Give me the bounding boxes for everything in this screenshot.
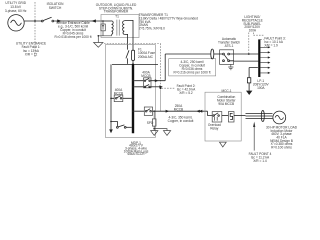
motor cable run bbox=[246, 113, 273, 118]
fault point 2 label bbox=[177, 84, 197, 95]
transformer T1 spec label bbox=[139, 13, 198, 30]
ATS-1 transfer switch bbox=[214, 50, 234, 65]
motor M1 bbox=[273, 111, 286, 124]
ground (SPD) bbox=[151, 131, 158, 136]
wire bus to MCC bbox=[134, 111, 212, 115]
node at boundary bbox=[34, 20, 36, 22]
node bus MCC feeder bbox=[132, 110, 134, 112]
svg-text:X/R = 1.9: X/R = 1.9 bbox=[264, 44, 278, 48]
svg-text:R=0.018 ohms per 1000 ft: R=0.018 ohms per 1000 ft bbox=[55, 35, 92, 39]
svg-text:X/R = 12: X/R = 12 bbox=[25, 52, 38, 56]
ATS label bbox=[218, 37, 240, 48]
dashed leader to fault 3 bbox=[253, 33, 263, 40]
svg-text:ATS-1: ATS-1 bbox=[225, 44, 234, 48]
wire feeder2 spare bbox=[151, 86, 160, 88]
svg-text:R=0.216 ohms per 1000 ft: R=0.216 ohms per 1000 ft bbox=[174, 70, 211, 74]
MDP-1 label bbox=[124, 141, 149, 156]
breaker 400A MCCB left bbox=[111, 95, 132, 102]
breaker 90A MCCB bbox=[212, 112, 222, 122]
flow arrow MCC input bbox=[196, 110, 200, 113]
bottom ground switch bbox=[111, 122, 132, 129]
node dashed leader on wire bbox=[248, 53, 250, 55]
svg-text:SPD: SPD bbox=[147, 121, 154, 125]
svg-text:Copper, in conduit: Copper, in conduit bbox=[168, 119, 194, 123]
fuse F1 bbox=[132, 50, 135, 64]
wire utility to transformer bbox=[24, 20, 101, 22]
svg-text:X/R = 5.2: X/R = 5.2 bbox=[179, 91, 193, 95]
ground (service) bbox=[163, 131, 170, 136]
ground (MCC) bbox=[220, 142, 227, 147]
wire ATS outputs to panel bus bbox=[234, 54, 259, 61]
left drop wire bbox=[110, 64, 112, 129]
LP-1 label bbox=[253, 79, 270, 90]
wire OL to cable bbox=[234, 115, 246, 117]
overload relay label bbox=[208, 123, 221, 130]
svg-text:200kA AIC: 200kA AIC bbox=[138, 55, 154, 59]
svg-text:100A: 100A bbox=[257, 86, 265, 90]
fault point 3 label bbox=[264, 37, 285, 48]
node main bbox=[132, 63, 134, 65]
arrow feeder2 bbox=[159, 85, 162, 88]
400A MCCB label (left) bbox=[114, 88, 123, 95]
400A MCCB label (right) bbox=[141, 71, 150, 78]
main switch (blade) bbox=[126, 50, 129, 64]
breaker 250A MCCB bbox=[144, 107, 152, 115]
conduit ellipse on ATS feeder bbox=[211, 49, 214, 59]
main bus MDP bbox=[132, 64, 134, 133]
utility entrance dashed boundary bbox=[34, 2, 36, 58]
node end of boundary bbox=[160, 87, 162, 89]
node SPD tap bbox=[153, 110, 155, 112]
svg-text:TRANSFORMER: TRANSFORMER bbox=[104, 10, 129, 14]
transformer enclosure box bbox=[101, 15, 139, 38]
fuse LP-1 bbox=[247, 78, 250, 83]
isolation switch S1 bbox=[41, 17, 53, 22]
feeder arrow LP-1 bbox=[246, 91, 252, 95]
wire secondary top to fuse bbox=[124, 20, 133, 50]
feeder arrow down bbox=[109, 129, 113, 133]
cable label box (ATS feeder) bbox=[169, 59, 216, 76]
svg-text:MCC-1: MCC-1 bbox=[221, 89, 231, 93]
svg-text:T1: T1 bbox=[115, 15, 119, 19]
fault point 4 leader arrow bbox=[253, 122, 255, 151]
svg-text:3-phase, 60 Hz: 3-phase, 60 Hz bbox=[5, 9, 27, 13]
MCC-1 enclosure box bbox=[205, 92, 241, 141]
conduit ellipse on motor cable bbox=[261, 110, 264, 121]
panel bus LP bbox=[258, 39, 260, 77]
MDP-1 enclosure box bbox=[105, 45, 155, 138]
cable span arrow left bbox=[199, 110, 203, 113]
wire to second ground bbox=[154, 129, 167, 131]
svg-text:X/R = 1.4: X/R = 1.4 bbox=[253, 159, 267, 163]
svg-text:100A: 100A bbox=[249, 28, 257, 32]
fault point 4 label bbox=[249, 152, 272, 163]
breaker 400A MCCB right (two feeders) bbox=[144, 78, 152, 88]
F1 label bbox=[138, 48, 155, 59]
svg-text:SWITCH: SWITCH bbox=[49, 6, 62, 10]
node bus feeder1 bbox=[132, 80, 134, 82]
service entrance cable label bbox=[55, 21, 92, 39]
overload relay OL1 bbox=[228, 112, 234, 122]
bus tie line bbox=[112, 63, 158, 65]
utility entrance fault label bbox=[16, 42, 46, 57]
bus feeder arrows bbox=[260, 46, 270, 74]
svg-text:R=0.100 ohms: R=0.100 ohms bbox=[271, 145, 292, 149]
svg-text:Z=5.75%, X/R=8.0: Z=5.75%, X/R=8.0 bbox=[139, 26, 165, 30]
flow arrow right bbox=[57, 19, 62, 22]
node left MCCB bbox=[110, 98, 112, 100]
SPD device bbox=[152, 111, 156, 130]
ground (transformer) bbox=[94, 43, 103, 48]
cable span arrow right bbox=[166, 110, 170, 113]
fault point 2 leader bbox=[162, 87, 175, 89]
transformer title label bbox=[96, 3, 137, 14]
utility source G1 bbox=[8, 15, 24, 31]
lighting sub-panel label bbox=[242, 15, 263, 32]
LP-1 tap wire bbox=[249, 68, 258, 78]
svg-text:65kA SCCR: 65kA SCCR bbox=[127, 152, 145, 156]
svg-text:Relay: Relay bbox=[210, 127, 219, 131]
node bottom switch bbox=[110, 121, 112, 123]
isolation switch label bbox=[47, 2, 64, 10]
transformer T1 windings bbox=[101, 20, 124, 36]
ground (ATS) bbox=[228, 64, 233, 69]
utility grid label bbox=[5, 1, 27, 13]
motor load label bbox=[266, 126, 298, 150]
svg-text:MCCB: MCCB bbox=[141, 74, 150, 78]
flow arrow left bbox=[91, 19, 96, 22]
node bus feeder2 bbox=[132, 86, 134, 88]
MCC feeder cable label bbox=[168, 116, 194, 124]
MCC-1 title bbox=[217, 95, 237, 106]
dashed room boundary bbox=[104, 44, 161, 88]
flow arrow feeder1 bbox=[155, 79, 159, 82]
wire below node bbox=[160, 89, 162, 111]
wire below fuse bbox=[248, 83, 250, 91]
wire secondary bottom to switch bbox=[124, 34, 127, 49]
svg-text:90A MCCB: 90A MCCB bbox=[218, 102, 234, 106]
wire bus to breaker bbox=[134, 81, 143, 87]
dashed leader to wire bbox=[248, 33, 250, 53]
cable label text bbox=[174, 60, 211, 75]
wire breaker to OL bbox=[222, 115, 229, 117]
wire feeder1 to ATS bbox=[151, 54, 165, 81]
surge arrester A1 bbox=[98, 20, 106, 42]
node SPD ground bbox=[153, 128, 155, 130]
250A MCCB label bbox=[174, 104, 183, 111]
